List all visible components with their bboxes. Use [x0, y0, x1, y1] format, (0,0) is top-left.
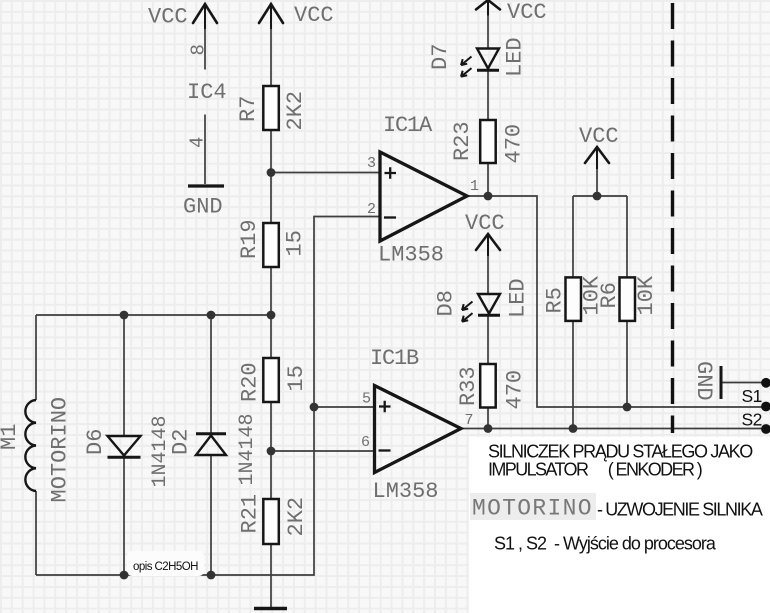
svg-text:S1 , S2 - Wyjście do procesor: S1 , S2 - Wyjście do procesora — [494, 534, 717, 554]
svg-text:D8: D8 — [434, 290, 459, 316]
svg-text:D6: D6 — [83, 429, 108, 455]
svg-text:opis C2H5OH: opis C2H5OH — [133, 561, 198, 573]
svg-text:R20: R20 — [238, 362, 263, 402]
svg-text:15: 15 — [283, 230, 308, 256]
svg-text:10K: 10K — [634, 275, 659, 315]
svg-text:VCC: VCC — [294, 3, 334, 28]
svg-text:LM358: LM358 — [378, 243, 444, 268]
svg-text:R5: R5 — [543, 287, 568, 313]
svg-text:- UZWOJENIE SILNIKA: - UZWOJENIE SILNIKA — [597, 500, 763, 520]
svg-text:IMPULSATOR ( ENKODER ): IMPULSATOR ( ENKODER ) — [488, 460, 702, 480]
svg-text:1: 1 — [470, 178, 479, 195]
svg-text:R7: R7 — [236, 96, 261, 122]
svg-text:D7: D7 — [428, 44, 453, 70]
svg-text:R6: R6 — [597, 282, 622, 308]
svg-text:6: 6 — [361, 434, 370, 451]
svg-text:2: 2 — [367, 201, 376, 218]
svg-text:1N4148: 1N4148 — [236, 413, 259, 485]
svg-text:S2: S2 — [742, 410, 762, 430]
svg-text:SILNICZEK PRĄDU STAŁEGO JAKO: SILNICZEK PRĄDU STAŁEGO JAKO — [488, 442, 753, 462]
svg-text:5: 5 — [362, 391, 371, 408]
svg-text:470: 470 — [503, 370, 528, 410]
svg-text:7: 7 — [465, 412, 474, 429]
svg-text:VCC: VCC — [148, 5, 188, 30]
svg-text:VCC: VCC — [507, 0, 547, 25]
svg-text:R33: R33 — [456, 366, 481, 406]
svg-text:15: 15 — [284, 365, 309, 391]
svg-text:GND: GND — [183, 195, 223, 220]
svg-text:IC1B: IC1B — [370, 346, 419, 371]
svg-text:R21: R21 — [238, 494, 263, 534]
svg-text:4: 4 — [187, 137, 209, 148]
svg-text:LM358: LM358 — [373, 479, 439, 504]
svg-text:GND: GND — [691, 361, 716, 401]
svg-text:LED: LED — [503, 37, 528, 77]
svg-text:R19: R19 — [237, 219, 262, 259]
svg-text:IC1A: IC1A — [383, 113, 433, 138]
svg-text:2K2: 2K2 — [283, 91, 308, 131]
svg-text:2K2: 2K2 — [284, 497, 309, 537]
svg-text:470: 470 — [502, 124, 527, 164]
svg-text:M1: M1 — [0, 424, 22, 450]
svg-text:IC4: IC4 — [187, 80, 227, 105]
svg-text:D2: D2 — [169, 429, 194, 455]
svg-text:MOTORINO: MOTORINO — [48, 397, 73, 503]
svg-text:8: 8 — [188, 44, 210, 55]
svg-text:LED: LED — [506, 278, 531, 318]
svg-text:3: 3 — [367, 155, 376, 172]
svg-text:MOTORINO: MOTORINO — [472, 496, 593, 522]
svg-text:R23: R23 — [450, 121, 475, 161]
svg-text:S1: S1 — [742, 386, 762, 406]
svg-text:VCC: VCC — [465, 211, 505, 236]
svg-text:VCC: VCC — [579, 124, 619, 149]
